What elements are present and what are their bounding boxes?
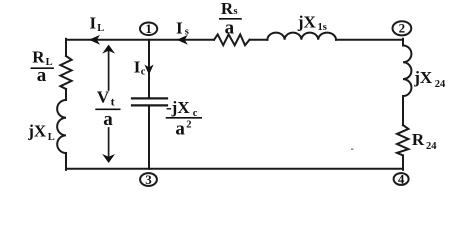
svg-text:a: a: [225, 18, 235, 39]
svg-text:a: a: [175, 119, 185, 140]
svg-text:V: V: [97, 87, 110, 106]
svg-text:2: 2: [399, 21, 406, 36]
svg-text:jX: jX: [413, 68, 433, 87]
svg-text:jX: jX: [297, 13, 317, 32]
svg-text:I: I: [176, 19, 183, 38]
svg-text:I: I: [90, 13, 97, 32]
svg-text:jX: jX: [27, 121, 47, 140]
svg-text:s: s: [185, 27, 189, 38]
svg-text:3: 3: [145, 172, 152, 187]
svg-text:I: I: [134, 58, 141, 77]
svg-text:L: L: [48, 132, 55, 143]
svg-text:R: R: [221, 0, 234, 18]
svg-text:-jX: -jX: [166, 98, 190, 117]
svg-text:4: 4: [398, 171, 405, 186]
svg-text:s: s: [234, 6, 238, 17]
svg-text:L: L: [97, 23, 104, 34]
svg-text:a: a: [103, 109, 113, 130]
svg-text:1: 1: [145, 21, 152, 36]
svg-text:1s: 1s: [318, 22, 327, 33]
svg-text:24: 24: [435, 79, 446, 90]
svg-text:R: R: [32, 47, 45, 66]
svg-text:L: L: [46, 57, 53, 68]
svg-text:24: 24: [426, 141, 437, 152]
svg-text:R: R: [412, 130, 425, 149]
svg-text:2: 2: [186, 119, 191, 130]
svg-text:c: c: [141, 66, 146, 77]
svg-text:t: t: [111, 95, 115, 109]
